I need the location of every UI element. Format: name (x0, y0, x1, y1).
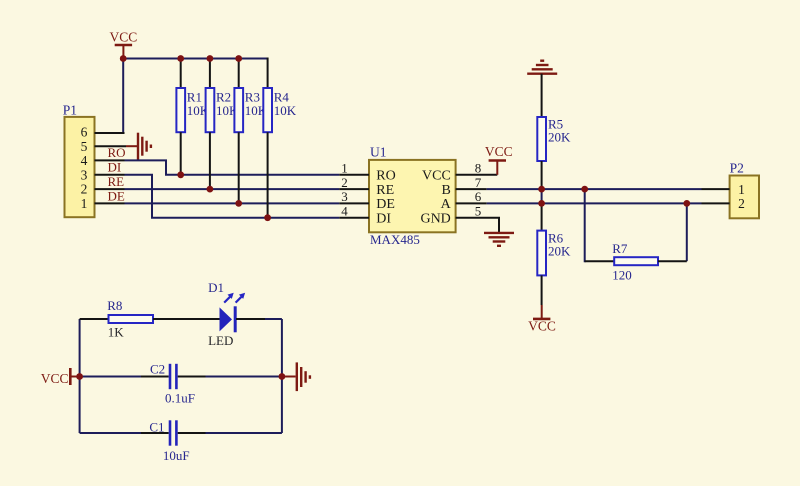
junction VCC rail at R1 (177, 55, 184, 62)
svg-text:2: 2 (341, 175, 348, 190)
svg-text:10K: 10K (274, 103, 297, 118)
wire drop from B line to R7 left (585, 189, 586, 261)
svg-text:DI: DI (376, 212, 391, 227)
power VCC bottom-left (41, 368, 80, 386)
resistor R1 (176, 59, 209, 175)
svg-text:2: 2 (738, 196, 745, 211)
junction R1 bottom on RO net (177, 171, 184, 178)
P1 pin 5 stub (95, 145, 127, 147)
svg-text:DI: DI (108, 160, 122, 175)
junction VCC rail at P1 feed (120, 55, 127, 62)
ground at P1 pin 5 (126, 133, 151, 160)
svg-text:5: 5 (81, 139, 88, 154)
capacitor C2 (141, 362, 206, 406)
svg-text:VCC: VCC (41, 371, 69, 386)
svg-text:U1: U1 (370, 145, 387, 160)
P1 pin 6 stub (95, 132, 125, 134)
wire left rail of bottom loop (79, 319, 81, 433)
resistor R4 (263, 58, 296, 218)
U1 pin 3 (339, 202, 369, 204)
U1 pin 8 (456, 174, 498, 176)
svg-text:3: 3 (341, 189, 348, 204)
resistor R3 (234, 59, 267, 204)
resistor R2 (206, 59, 239, 190)
wire A net U1.6 to P2.2 (487, 202, 702, 204)
arrow 2 (236, 297, 242, 303)
resistor R8 (80, 298, 220, 340)
svg-text:2: 2 (81, 182, 88, 197)
U1 pin 5 (456, 218, 499, 233)
svg-text:1: 1 (738, 182, 745, 197)
svg-text:6: 6 (81, 125, 88, 140)
P1 pin 4 stub (95, 159, 125, 161)
U1 pin 4 (339, 217, 369, 219)
ground at U1 pin 5 (484, 233, 514, 246)
svg-text:VCC: VCC (485, 144, 513, 159)
power VCC below R6 (528, 305, 556, 334)
U1 pin 2 (339, 188, 369, 190)
svg-text:B: B (441, 183, 450, 198)
junction VCC node bottom-left rail (76, 373, 83, 380)
diode body (220, 307, 233, 331)
svg-text:RO: RO (108, 145, 126, 160)
wire RE net P1.2 to U1.2 (125, 188, 340, 190)
svg-text:VCC: VCC (422, 169, 451, 184)
op-amp U1 MAX485 (339, 145, 499, 248)
wire rise from R7 right to A line (686, 203, 688, 261)
P1 pin 3 stub (95, 174, 125, 176)
wire top VCC rail (123, 58, 267, 60)
wire C1 row left (80, 432, 141, 434)
wire right rail of bottom loop (281, 319, 283, 433)
svg-text:A: A (441, 197, 452, 212)
resistor R6 (537, 203, 571, 305)
wire DE net P1.1 to U1.3 (125, 202, 340, 204)
junction ground node bottom-right rail (279, 373, 286, 380)
svg-text:20K: 20K (548, 243, 571, 258)
junction R2 bottom on RE net (207, 186, 214, 193)
svg-text:1K: 1K (108, 325, 125, 340)
svg-text:LED: LED (208, 333, 233, 348)
svg-text:P2: P2 (730, 161, 744, 176)
svg-text:7: 7 (475, 175, 482, 190)
svg-text:1: 1 (341, 161, 348, 176)
wire DI net P1.3 down and across to U1.4 (125, 175, 340, 218)
svg-text:10uF: 10uF (163, 448, 190, 463)
wire RO net P1.4 to U1.1 (125, 160, 340, 174)
svg-text:D1: D1 (208, 280, 224, 295)
ground above R5 (527, 61, 557, 74)
svg-text:5: 5 (475, 204, 482, 219)
svg-text:6: 6 (475, 189, 482, 204)
junction node A at R6 column (538, 200, 545, 207)
wire VCC column down to P1 pin6 (96, 59, 123, 134)
svg-text:VCC: VCC (528, 319, 556, 334)
svg-text:DE: DE (108, 189, 125, 204)
P2 pin 1 stub (702, 188, 730, 190)
svg-text:C2: C2 (150, 362, 165, 377)
wire between B and A junctions on R5/R6 column (541, 189, 543, 203)
svg-text:DE: DE (376, 197, 395, 212)
svg-text:RO: RO (376, 169, 395, 184)
svg-text:0.1uF: 0.1uF (165, 391, 195, 406)
junction R3 bottom on DE net (235, 200, 242, 207)
junction VCC rail at R3 (235, 55, 242, 62)
junction node B at R7 drop (581, 186, 588, 193)
P2 pin 2 stub (702, 202, 730, 204)
U1 pin 6 (456, 202, 487, 204)
svg-text:R8: R8 (107, 298, 122, 313)
resistor R5 (537, 74, 571, 189)
svg-text:RE: RE (376, 183, 394, 198)
svg-text:20K: 20K (548, 130, 571, 145)
P1 pin 1 stub (95, 202, 125, 204)
svg-text:R7: R7 (612, 241, 628, 256)
LED D1 (208, 280, 282, 348)
wire B net U1.7 to P2.1 (487, 188, 702, 190)
capacitor C1 (141, 420, 206, 464)
ground right of C2 (282, 362, 310, 391)
power VCC at U1 pin 8 (485, 144, 513, 175)
svg-text:GND: GND (420, 212, 450, 227)
wire C2 row left (80, 376, 141, 378)
svg-text:1: 1 (81, 196, 88, 211)
svg-text:120: 120 (612, 268, 632, 283)
wire C2 row right (206, 376, 282, 378)
P1 pin 2 stub (95, 188, 125, 190)
svg-text:4: 4 (341, 204, 348, 219)
svg-text:RE: RE (108, 174, 125, 189)
resistor R7 (585, 241, 687, 283)
junction R4 bottom on DI net (264, 214, 271, 221)
svg-text:VCC: VCC (110, 30, 138, 45)
junction node B at R5 column (538, 186, 545, 193)
wire C1 row right (206, 432, 282, 434)
U1 pin 1 (339, 174, 369, 176)
svg-text:C1: C1 (149, 420, 164, 435)
svg-text:MAX485: MAX485 (370, 232, 420, 247)
connector P2 (702, 161, 760, 219)
connector P1 (63, 103, 126, 218)
junction node A at R7 riser (683, 200, 690, 207)
arrow 1 (224, 297, 230, 303)
svg-text:3: 3 (81, 167, 88, 182)
junction VCC rail at R2 (207, 55, 214, 62)
power VCC top-left (110, 30, 138, 59)
U1 pin 7 (456, 188, 487, 190)
svg-text:4: 4 (81, 153, 88, 168)
svg-text:P1: P1 (63, 103, 77, 118)
svg-text:8: 8 (475, 161, 482, 176)
